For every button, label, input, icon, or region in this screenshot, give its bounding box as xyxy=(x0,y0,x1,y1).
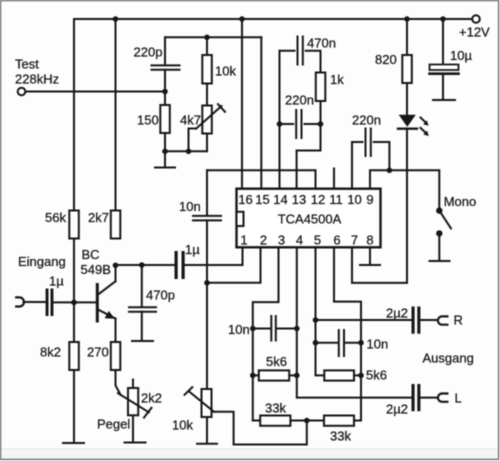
svg-text:R: R xyxy=(454,313,463,328)
svg-text:9: 9 xyxy=(366,192,373,207)
svg-text:16: 16 xyxy=(238,192,252,207)
svg-text:12: 12 xyxy=(311,192,325,207)
svg-text:2k7: 2k7 xyxy=(88,210,109,225)
svg-text:Ausgang: Ausgang xyxy=(423,351,474,366)
svg-text:TCA4500A: TCA4500A xyxy=(278,212,342,227)
svg-text:10n: 10n xyxy=(179,199,201,214)
svg-text:14: 14 xyxy=(273,192,287,207)
svg-text:33k: 33k xyxy=(330,429,351,444)
svg-text:2µ2: 2µ2 xyxy=(386,402,408,417)
svg-text:5k6: 5k6 xyxy=(366,368,387,383)
svg-text:5: 5 xyxy=(314,232,321,247)
svg-text:549B: 549B xyxy=(81,262,111,277)
svg-text:10n: 10n xyxy=(367,337,389,352)
svg-text:8k2: 8k2 xyxy=(40,345,61,360)
svg-text:220n: 220n xyxy=(352,113,381,128)
svg-text:6: 6 xyxy=(333,232,340,247)
svg-text:2: 2 xyxy=(260,232,267,247)
svg-text:BC: BC xyxy=(82,247,100,262)
svg-text:13: 13 xyxy=(292,192,306,207)
svg-text:L: L xyxy=(455,391,462,406)
svg-text:150: 150 xyxy=(137,113,159,128)
svg-text:1k: 1k xyxy=(330,72,344,87)
svg-text:56k: 56k xyxy=(45,210,66,225)
svg-text:5k6: 5k6 xyxy=(266,354,287,369)
svg-text:10k: 10k xyxy=(172,418,193,433)
svg-text:+12V: +12V xyxy=(459,25,490,40)
svg-text:10k: 10k xyxy=(215,64,236,79)
svg-text:10n: 10n xyxy=(228,322,250,337)
svg-text:Pegel: Pegel xyxy=(97,417,130,432)
svg-text:228kHz: 228kHz xyxy=(15,72,59,87)
svg-text:2k2: 2k2 xyxy=(141,391,162,406)
svg-text:33k: 33k xyxy=(265,401,286,416)
svg-text:Mono: Mono xyxy=(444,194,477,209)
svg-text:Test: Test xyxy=(15,56,39,71)
svg-text:220n: 220n xyxy=(285,93,314,108)
svg-text:1: 1 xyxy=(240,232,247,247)
svg-text:10µ: 10µ xyxy=(450,48,472,63)
svg-text:2µ2: 2µ2 xyxy=(386,306,408,321)
svg-text:1µ: 1µ xyxy=(49,274,64,289)
svg-text:3: 3 xyxy=(278,232,285,247)
svg-text:1µ: 1µ xyxy=(185,242,200,257)
svg-text:15: 15 xyxy=(255,192,269,207)
svg-text:820: 820 xyxy=(375,52,397,67)
svg-text:4k7: 4k7 xyxy=(180,113,201,128)
svg-text:Eingang: Eingang xyxy=(18,254,66,269)
svg-text:7: 7 xyxy=(351,232,358,247)
svg-text:470p: 470p xyxy=(146,288,175,303)
svg-text:470n: 470n xyxy=(307,36,336,51)
svg-text:4: 4 xyxy=(296,232,303,247)
svg-text:8: 8 xyxy=(366,232,373,247)
svg-text:11: 11 xyxy=(329,192,343,207)
svg-text:220p: 220p xyxy=(134,45,163,60)
svg-text:270: 270 xyxy=(87,345,109,360)
svg-text:10: 10 xyxy=(347,192,361,207)
